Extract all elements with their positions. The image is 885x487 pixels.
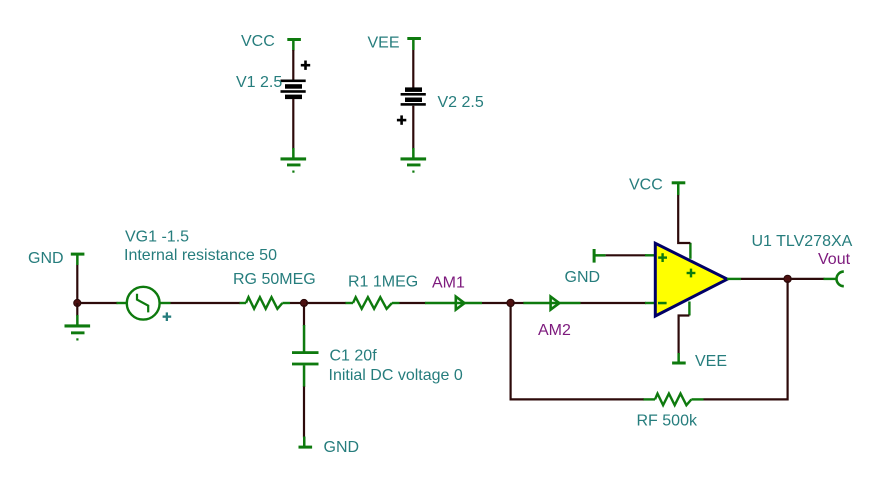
svg-text:VEE: VEE bbox=[368, 35, 400, 52]
op-amp U1 - input marker bbox=[658, 302, 667, 305]
wire op-amp bottom power pin to VEE bbox=[679, 316, 690, 355]
wire output lead to node D bbox=[741, 278, 785, 280]
svg-text:GND: GND bbox=[324, 439, 360, 456]
GND T-terminal (below C1) bbox=[299, 437, 313, 449]
wire R1 to AM1 bbox=[400, 302, 426, 304]
op-amp U1 non-inverting input lead bbox=[645, 254, 656, 256]
wire node B to R1 bbox=[306, 302, 346, 304]
GND T-terminal (op-amp non-inverting input) bbox=[593, 249, 606, 263]
VCC T-terminal (V1 top) bbox=[287, 38, 301, 51]
resistor R1 1MEG bbox=[346, 297, 400, 309]
svg-text:V2 2.5: V2 2.5 bbox=[438, 94, 484, 111]
wire feedback rail to node C bbox=[511, 306, 644, 400]
node D junction bbox=[784, 275, 791, 282]
op-amp U1 + input marker bbox=[658, 253, 667, 262]
wire V1 top lead bbox=[292, 50, 294, 80]
svg-text:Initial DC voltage 0: Initial DC voltage 0 bbox=[329, 367, 463, 384]
svg-text:Internal resistance 50: Internal resistance 50 bbox=[124, 247, 277, 264]
wire node D to output terminal bbox=[790, 278, 825, 280]
ammeter AM1 bbox=[425, 297, 482, 310]
ammeter AM2 bbox=[523, 297, 580, 310]
op-amp U1 top power pin bbox=[689, 243, 691, 259]
wire node D down to feedback rail bbox=[704, 281, 788, 399]
node C junction bbox=[507, 299, 514, 306]
wire node A to VG1 bbox=[80, 302, 118, 304]
svg-text:C1 20f: C1 20f bbox=[330, 348, 378, 365]
wire AM1 to node C bbox=[482, 302, 508, 304]
wire node C to AM2 bbox=[513, 302, 524, 304]
wire node A to ground symbol bbox=[76, 303, 78, 316]
wire AM2 to op-amp inverting input bbox=[581, 302, 647, 304]
wire VCC to op-amp top power pin bbox=[678, 195, 690, 243]
ground symbol (left) bbox=[65, 315, 91, 341]
VEE T-terminal (op-amp) bbox=[672, 353, 686, 365]
wire RG to node B bbox=[290, 302, 302, 304]
svg-text:AM2: AM2 bbox=[538, 322, 571, 339]
op-amp U1 inverting input lead bbox=[645, 302, 656, 304]
battery V2 plus sign bbox=[397, 115, 406, 124]
wire V1 bottom lead bbox=[292, 99, 294, 149]
svg-text:VCC: VCC bbox=[629, 176, 663, 193]
VG1 plus polarity mark bbox=[163, 312, 172, 321]
VEE T-terminal (V2 top) bbox=[407, 37, 421, 50]
op-amp U1 TLV278XA bbox=[655, 243, 727, 316]
VCC T-terminal (op-amp) bbox=[672, 181, 686, 195]
svg-text:GND: GND bbox=[565, 269, 601, 286]
wire C1 to GND terminal bbox=[303, 387, 305, 438]
op-amp U1 output polarity marker bbox=[687, 269, 696, 278]
output terminal Vout bbox=[824, 272, 844, 287]
svg-text:VG1 -1.5: VG1 -1.5 bbox=[125, 229, 189, 246]
svg-text:R1 1MEG: R1 1MEG bbox=[348, 273, 418, 290]
svg-text:AM1: AM1 bbox=[432, 274, 465, 291]
wire GND terminal to op-amp + input bbox=[606, 254, 646, 256]
wire VG1 to RG bbox=[171, 302, 241, 304]
svg-text:RG 50MEG: RG 50MEG bbox=[233, 271, 316, 288]
ground under V1 bbox=[281, 148, 307, 173]
svg-text:U1 TLV278XA: U1 TLV278XA bbox=[752, 233, 853, 250]
op-amp U1 bottom power pin bbox=[688, 302, 690, 316]
resistor RG 50MEG bbox=[240, 297, 291, 309]
resistor RF 500k bbox=[643, 394, 704, 406]
capacitor C1 20f bbox=[292, 325, 319, 387]
wire node B down to C1 bbox=[303, 305, 305, 326]
GND T-terminal (left) bbox=[71, 253, 85, 266]
ground under V2 bbox=[401, 148, 427, 173]
wire GND terminal to node A bbox=[76, 265, 78, 303]
node B junction bbox=[300, 299, 307, 306]
wire V2 top lead bbox=[412, 50, 414, 88]
wire V2 bottom lead bbox=[412, 106, 414, 149]
svg-text:RF 500k: RF 500k bbox=[637, 413, 698, 430]
battery V2 2.5 bbox=[401, 87, 426, 105]
op-amp U1 output lead bbox=[727, 278, 741, 280]
svg-text:GND: GND bbox=[28, 250, 64, 267]
svg-text:VCC: VCC bbox=[241, 33, 275, 50]
svg-text:Vout: Vout bbox=[818, 251, 851, 268]
svg-text:VEE: VEE bbox=[695, 353, 727, 370]
voltage generator VG1 bbox=[117, 287, 171, 320]
battery V1 plus sign bbox=[301, 61, 310, 70]
battery V1 2.5 bbox=[281, 80, 306, 100]
svg-text:V1 2.5: V1 2.5 bbox=[236, 74, 282, 91]
node A junction bbox=[74, 299, 81, 306]
